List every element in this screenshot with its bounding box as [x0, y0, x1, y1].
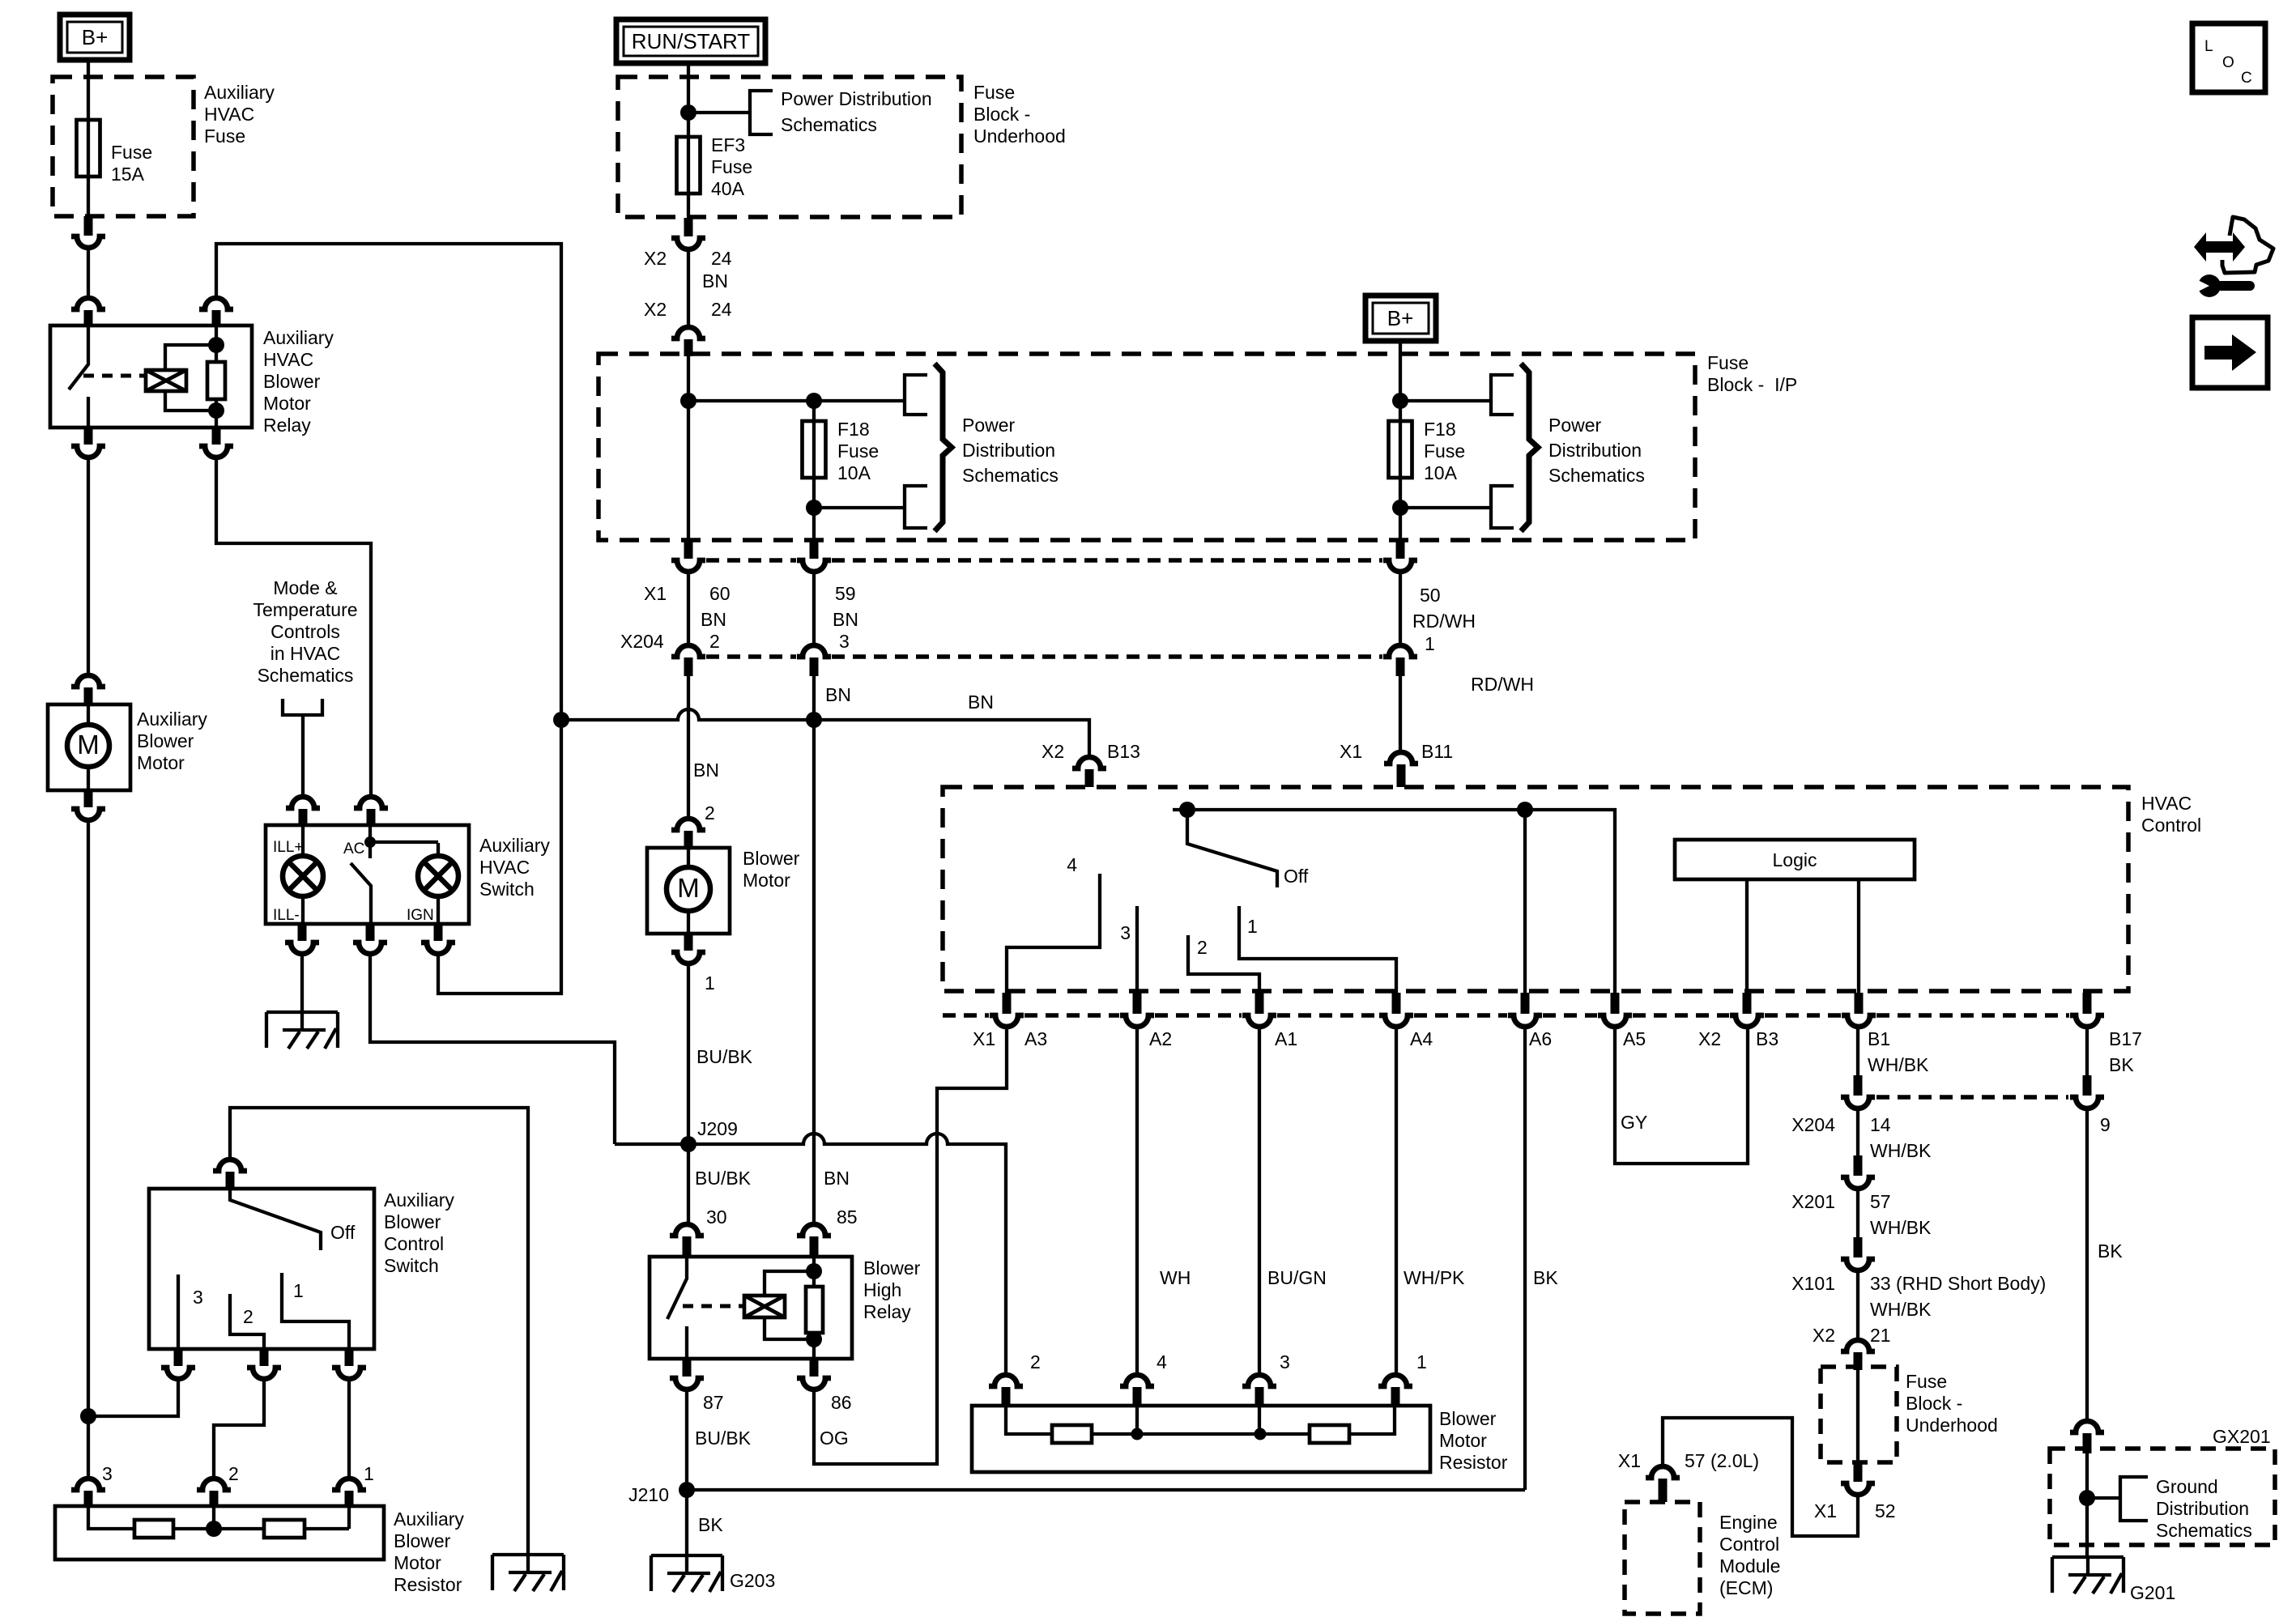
svg-text:BN: BN	[824, 1168, 850, 1189]
svg-text:1: 1	[1416, 1351, 1427, 1372]
connector at Auxiliary Blower Motor Resistor pin 2	[197, 1463, 239, 1506]
connector X1 pin 59	[797, 540, 831, 572]
svg-text:BK: BK	[2109, 1054, 2134, 1075]
svg-text:30: 30	[706, 1206, 727, 1228]
svg-text:X1: X1	[1814, 1500, 1837, 1521]
HVAC internal feed line	[1173, 810, 1615, 993]
svg-text:A6: A6	[1529, 1028, 1552, 1049]
connector X2 pin 21	[1841, 1340, 1875, 1370]
wire BU/GN A1 to resistor pin 3	[1259, 1027, 1327, 1373]
wire X201-57 to X101-33	[1856, 1189, 1859, 1237]
HVAC switch position 4	[1007, 854, 1100, 993]
svg-text:WH/BK: WH/BK	[1870, 1140, 1932, 1161]
resistor box: Blower Motor Resistor	[972, 1406, 1430, 1472]
svg-text:WH/BK: WH/BK	[1870, 1217, 1932, 1238]
relay K2 coil axis wire	[812, 1257, 816, 1359]
connector at Auxiliary Blower Motor pin	[71, 675, 105, 705]
connector X1 pin B11	[1340, 741, 1453, 787]
ground for Auxiliary Blower Control Switch	[492, 1555, 564, 1591]
label Power Distribution Schematics (F18 right)	[1548, 415, 1645, 486]
connector labels X2 24 BN X2 24	[644, 248, 732, 320]
connector below Auxiliary Blower Motor	[71, 790, 105, 820]
svg-text:Blower: Blower	[263, 371, 321, 392]
svg-text:Logic: Logic	[1773, 849, 1817, 870]
svg-text:24: 24	[711, 299, 732, 320]
svg-text:HVAC: HVAC	[263, 349, 313, 370]
svg-text:ILL+: ILL+	[273, 839, 304, 856]
relay K2 parallel resistor	[806, 1287, 823, 1333]
svg-text:B+: B+	[1387, 306, 1414, 330]
svg-text:Mode &: Mode &	[273, 577, 337, 598]
wire Mode & Temperature to ILL+ terminal	[301, 715, 305, 795]
svg-text:X2: X2	[1042, 741, 1064, 762]
wire between underhood and I/P fuse blocks	[687, 249, 690, 326]
svg-text:2: 2	[1030, 1351, 1041, 1372]
reference box LOC	[2192, 23, 2265, 92]
connector X204 pin 14	[1791, 1075, 1932, 1161]
label Fuse Block - I/P	[1707, 352, 1797, 395]
svg-text:Block -: Block -	[973, 104, 1030, 125]
svg-text:BN: BN	[693, 760, 719, 781]
svg-text:B17: B17	[2109, 1028, 2142, 1049]
wire BN to Blower Motor (through rail hop)	[688, 676, 719, 823]
svg-text:HVAC: HVAC	[204, 104, 254, 125]
svg-text:Blower: Blower	[743, 848, 800, 869]
svg-text:Fuse: Fuse	[711, 156, 752, 177]
svg-text:Schematics: Schematics	[1548, 465, 1645, 486]
label Auxiliary Blower Motor	[137, 709, 207, 773]
svg-text:Distribution: Distribution	[1548, 440, 1642, 461]
svg-text:J210: J210	[628, 1484, 669, 1505]
wire Logic to B3	[1745, 879, 1749, 993]
label Engine Control Module (ECM)	[1719, 1512, 1780, 1598]
control switch position 1 contact	[282, 1273, 349, 1349]
wires between X1 and X204 rows	[688, 572, 1400, 644]
ground below Auxiliary HVAC Switch	[266, 1012, 338, 1049]
wire from B+ to Auxiliary HVAC Fuse	[87, 60, 90, 77]
relay K2 actuation dashed link	[683, 1304, 744, 1308]
connector at control switch pin 2	[247, 1349, 281, 1379]
svg-text:Power: Power	[1548, 415, 1602, 436]
svg-text:3: 3	[1280, 1351, 1290, 1372]
pin label IGN	[407, 907, 434, 924]
connector at Auxiliary HVAC Switch output pin	[353, 924, 387, 954]
connector at control switch pin 1	[332, 1349, 366, 1379]
connector line X1 (small dashes)	[706, 558, 1382, 563]
aux resistor element 2	[264, 1520, 305, 1538]
splice box GX201 (dashed)	[2050, 1426, 2275, 1545]
svg-text:Resistor: Resistor	[394, 1574, 462, 1595]
svg-text:Fuse: Fuse	[1906, 1371, 1947, 1392]
fuse F18 10A (right)	[1389, 419, 1466, 483]
power node B+ (I/P feed)	[1365, 296, 1436, 341]
svg-text:BK: BK	[698, 1514, 723, 1535]
blower resistor element 2	[1310, 1425, 1349, 1443]
svg-text:Fuse: Fuse	[111, 142, 152, 163]
fuse EF3 40A	[677, 134, 753, 199]
connector at Blower Motor Resistor pin 2	[989, 1351, 1041, 1406]
wire through Auxiliary HVAC Fuse box	[87, 77, 90, 216]
wire relay K1 to Auxiliary Blower Motor	[87, 457, 90, 674]
in-line connector below Fuse Block Underhood	[671, 218, 705, 249]
HVAC switch position 3	[1120, 906, 1137, 993]
reference bracket (Mode & Temperature Controls)	[283, 699, 322, 715]
svg-text:1: 1	[293, 1280, 304, 1301]
svg-text:87: 87	[703, 1392, 724, 1413]
wire X101-33 to X2-21	[1813, 1270, 1891, 1346]
wire RD/WH X204-1 to HVAC B11	[1400, 674, 1534, 751]
svg-text:X204: X204	[1791, 1114, 1835, 1135]
connector at relay coil supply pin	[199, 298, 233, 327]
splice J210	[628, 1482, 1525, 1535]
svg-text:X204: X204	[620, 631, 664, 652]
svg-text:10A: 10A	[837, 462, 871, 483]
svg-text:Schematics: Schematics	[258, 665, 354, 686]
connector line X204 (small dashes)	[706, 654, 1382, 659]
svg-text:Control: Control	[384, 1233, 444, 1254]
connector X204 pin 2	[671, 645, 705, 676]
relay K1 parallel resistor	[207, 362, 225, 399]
svg-text:BN: BN	[702, 270, 728, 291]
svg-text:Auxiliary: Auxiliary	[394, 1508, 464, 1530]
wire BK B17 to X204-9	[2085, 1027, 2089, 1075]
svg-text:85: 85	[837, 1206, 858, 1228]
svg-text:X2: X2	[644, 299, 667, 320]
motor M: Auxiliary Blower Motor	[48, 704, 130, 790]
junction dots in relay K1	[208, 337, 224, 419]
wire WH/PK A4 to resistor pin 1	[1396, 1027, 1465, 1373]
fuse 15A	[77, 120, 153, 185]
fuse F18 10A (left)	[803, 419, 880, 483]
label Blower Motor Resistor	[1439, 1408, 1508, 1473]
HVAC blower switch wiper	[1187, 810, 1309, 887]
connector HVAC pin A6	[1508, 993, 1542, 1027]
connector line X204 right (small dashes)	[1876, 1095, 2068, 1100]
svg-text:BN: BN	[825, 684, 851, 705]
blower resistor junction dots	[1131, 1428, 1267, 1440]
connector at Auxiliary Blower Control Switch common pin	[213, 1160, 247, 1189]
connector ECM X1 pin 57	[1618, 1450, 1759, 1502]
wire WH/BK B1 to X204	[1856, 1027, 1859, 1075]
wire fuse to relay contact	[87, 248, 90, 296]
svg-text:Blower: Blower	[863, 1257, 921, 1279]
ground G201	[2052, 1557, 2175, 1603]
svg-text:X201: X201	[1791, 1191, 1835, 1212]
motor M: Blower Motor	[647, 848, 730, 934]
label Blower Motor	[743, 848, 800, 891]
svg-text:BK: BK	[1533, 1267, 1558, 1288]
svg-text:Fuse: Fuse	[1424, 440, 1465, 462]
svg-text:60: 60	[709, 583, 731, 604]
connector at relay pin 87	[670, 1359, 724, 1413]
svg-text:15A: 15A	[111, 164, 145, 185]
svg-text:Off: Off	[330, 1222, 356, 1243]
pin label AC	[343, 840, 364, 857]
connector at control switch pin 3	[161, 1349, 195, 1379]
wire B+ branch to relay coil and BN rail	[216, 244, 561, 720]
wire Auxiliary Blower Motor to resistor pin 3	[87, 820, 90, 1477]
relay K2 coil	[744, 1271, 814, 1339]
splice J209	[615, 1118, 1006, 1373]
icon forward arrow box	[2192, 317, 2268, 388]
connector HVAC pin A2	[1120, 993, 1154, 1027]
wire control switch pin 3 to resistor feed	[88, 1379, 178, 1416]
logic block	[1675, 840, 1915, 879]
resistor box: Auxiliary Blower Motor Resistor	[55, 1506, 384, 1560]
svg-text:59: 59	[835, 583, 856, 604]
svg-text:Auxiliary: Auxiliary	[204, 82, 275, 103]
junction dot at EF3 feed	[680, 104, 696, 121]
wire I/P feed bus (left)	[688, 355, 905, 540]
svg-text:Motor: Motor	[1439, 1430, 1487, 1451]
svg-text:Motor: Motor	[137, 752, 185, 773]
svg-text:Switch: Switch	[479, 879, 535, 900]
connector HVAC pin A4	[1379, 993, 1413, 1027]
control switch position 3 contact	[178, 1274, 203, 1349]
labels X204 2 3 1	[620, 631, 1435, 654]
svg-text:OG: OG	[820, 1428, 849, 1449]
connector HVAC pin A5	[1598, 993, 1632, 1027]
svg-text:Fuse: Fuse	[1707, 352, 1749, 373]
blower resistor internal bus	[1006, 1406, 1395, 1434]
wire Auxiliary Blower Control Switch common to ground	[230, 1108, 528, 1555]
AC indicator lamp	[418, 843, 458, 924]
wire through underhood block to X1-52	[1856, 1368, 1859, 1462]
svg-text:RD/WH: RD/WH	[1471, 674, 1534, 695]
connector X101 pin 33	[1791, 1237, 2046, 1320]
svg-text:3: 3	[839, 631, 850, 652]
HVAC switch position 1	[1239, 906, 1396, 993]
connector at Blower Motor pin 1	[671, 934, 715, 994]
relay K1 switch contact	[69, 326, 88, 428]
connector at relay pin 1 (contact feed)	[71, 298, 105, 327]
svg-text:1: 1	[1425, 633, 1435, 654]
svg-text:3: 3	[193, 1287, 203, 1308]
svg-text:52: 52	[1875, 1500, 1896, 1521]
aux resistor element 1	[134, 1520, 173, 1538]
reference brackets Power Distribution (F18 right)	[1491, 375, 1514, 528]
connector HVAC pin B3	[1730, 993, 1764, 1027]
connector at Blower Motor Resistor pin 3	[1242, 1351, 1290, 1406]
connector at relay K1 coil ground-side pin	[199, 428, 233, 457]
svg-text:2: 2	[243, 1306, 253, 1327]
in-line connector at Fuse Block I/P input	[671, 327, 705, 356]
svg-text:1: 1	[705, 972, 715, 994]
svg-text:Auxiliary: Auxiliary	[263, 327, 334, 348]
label Off (control switch)	[330, 1222, 356, 1243]
svg-text:IGN: IGN	[407, 907, 434, 924]
svg-text:2: 2	[1197, 937, 1208, 958]
wire IGN terminal to BN rail	[438, 720, 561, 994]
svg-text:40A: 40A	[711, 178, 745, 199]
svg-text:C: C	[2241, 70, 2252, 87]
connector at Auxiliary Blower Motor Resistor pin 3	[71, 1463, 113, 1506]
label Fuse Block - Underhood	[973, 82, 1066, 147]
relay K1 actuation dashed link	[83, 374, 146, 378]
svg-text:Schematics: Schematics	[962, 465, 1059, 486]
relay K2 switch contact	[667, 1257, 687, 1359]
svg-text:Fuse: Fuse	[204, 126, 245, 147]
svg-text:50: 50	[1420, 585, 1441, 606]
label Auxiliary Blower Motor Resistor	[394, 1508, 464, 1595]
svg-text:Blower: Blower	[137, 730, 194, 751]
power node RUN/START	[616, 19, 765, 63]
fuse block: Fuse Block - Underhood (pass-through, dashed)	[1821, 1367, 1897, 1462]
svg-text:B3: B3	[1756, 1028, 1778, 1049]
pin label ILL+	[273, 839, 304, 856]
svg-text:F18: F18	[837, 419, 870, 440]
svg-text:57 (2.0L): 57 (2.0L)	[1685, 1450, 1759, 1471]
in-line connector below Auxiliary HVAC Fuse	[71, 216, 105, 248]
connector at Auxiliary HVAC Switch ILL+ pin	[286, 797, 320, 827]
svg-text:A3: A3	[1024, 1028, 1047, 1049]
control switch position 2 contact	[230, 1294, 264, 1349]
fuse block: Fuse Block - Underhood (dashed box)	[618, 77, 961, 217]
svg-text:RUN/START: RUN/START	[632, 29, 750, 53]
wire F18 left lower branch	[814, 506, 905, 509]
wire BU/BK relay 87 to J210	[687, 1389, 752, 1555]
svg-text:High: High	[863, 1279, 901, 1300]
svg-text:BU/BK: BU/BK	[695, 1428, 752, 1449]
svg-text:J209: J209	[697, 1118, 738, 1139]
relay K1 coil	[146, 345, 216, 411]
switch box: Auxiliary HVAC Switch	[266, 825, 469, 924]
svg-text:Fuse: Fuse	[837, 440, 879, 462]
junction dot on motor wire at resistor feed	[80, 1408, 96, 1424]
label Ground Distribution Schematics	[2156, 1476, 2252, 1541]
svg-text:BN: BN	[833, 609, 858, 630]
svg-text:B+: B+	[82, 25, 109, 49]
wire control switch pin 1 to resistor tap 1	[347, 1379, 351, 1477]
wire X204-14 to X201-57	[1856, 1108, 1859, 1155]
wire RUN/START through fuse EF3	[688, 63, 750, 216]
svg-text:X1: X1	[973, 1028, 995, 1049]
connector at Blower Motor Resistor pin 1	[1378, 1351, 1427, 1406]
svg-text:O: O	[2222, 54, 2234, 71]
fuse block: Fuse Block - I/P (dashed box)	[598, 354, 1695, 540]
svg-text:Motor: Motor	[263, 393, 311, 414]
svg-text:Engine: Engine	[1719, 1512, 1778, 1533]
module box: Engine Control Module (dashed)	[1625, 1502, 1700, 1614]
svg-text:Temperature: Temperature	[253, 599, 357, 620]
wire control switch pin 2 to resistor tap 2	[214, 1379, 264, 1477]
svg-text:A2: A2	[1149, 1028, 1172, 1049]
svg-text:GY: GY	[1621, 1112, 1647, 1133]
svg-text:B1: B1	[1868, 1028, 1890, 1049]
svg-text:Fuse: Fuse	[973, 82, 1015, 103]
connector at relay pin 30	[670, 1224, 704, 1257]
reference brace (F18 left)	[935, 364, 952, 531]
svg-text:Off: Off	[1284, 866, 1309, 887]
svg-text:33 (RHD Short Body): 33 (RHD Short Body)	[1870, 1273, 2046, 1294]
svg-text:2: 2	[228, 1463, 239, 1484]
relay K1 box (Auxiliary HVAC Blower Motor Relay)	[50, 326, 252, 428]
svg-text:AC: AC	[343, 840, 364, 857]
junction dot BN rail at X204-3 wire	[806, 712, 822, 728]
svg-text:X1: X1	[644, 583, 667, 604]
svg-text:X2: X2	[1813, 1325, 1835, 1346]
svg-text:BN: BN	[968, 691, 994, 713]
wire BN X204-3 down to rail	[814, 676, 851, 720]
power node B+ (battery feed, left)	[60, 15, 130, 60]
svg-text:9: 9	[2100, 1114, 2111, 1135]
svg-text:(ECM): (ECM)	[1719, 1577, 1773, 1598]
wire BK X204-9 to GX201	[2087, 1108, 2123, 1419]
svg-text:Control: Control	[1719, 1534, 1779, 1555]
wire Logic to B1	[1857, 879, 1860, 993]
pin label ILL-	[273, 907, 300, 924]
svg-text:4: 4	[1067, 854, 1077, 875]
svg-text:WH/BK: WH/BK	[1870, 1299, 1932, 1320]
svg-text:M: M	[677, 873, 700, 903]
illumination lamp ILL	[283, 825, 323, 924]
svg-text:Module: Module	[1719, 1555, 1780, 1577]
wire Auxiliary HVAC Switch output to J209	[370, 954, 615, 1144]
connector at Auxiliary Blower Motor Resistor pin 1	[332, 1463, 374, 1506]
connector at relay pin 85	[797, 1224, 831, 1257]
svg-text:X1: X1	[1618, 1450, 1641, 1471]
aux resistor junction dot	[206, 1521, 222, 1537]
svg-text:G203: G203	[730, 1570, 775, 1591]
connector X1 pin 52	[1814, 1462, 1896, 1521]
connector line X1/X2 below HVAC (small dashes)	[943, 1013, 2069, 1018]
svg-text:B13: B13	[1107, 741, 1140, 762]
svg-text:Motor: Motor	[394, 1552, 441, 1573]
connector at relay pin 86	[797, 1359, 852, 1413]
wire relay K1 coil pin to Auxiliary HVAC Switch AC terminal	[216, 457, 371, 795]
label Blower High Relay	[863, 1257, 921, 1322]
svg-text:24: 24	[711, 248, 732, 269]
wire ILL- to ground	[300, 954, 304, 1012]
svg-text:21: 21	[1870, 1325, 1891, 1346]
svg-text:WH/BK: WH/BK	[1868, 1054, 1929, 1075]
connector HVAC pin B1	[1842, 993, 1876, 1027]
svg-text:HVAC: HVAC	[479, 857, 530, 878]
label Auxiliary HVAC Blower Motor Relay	[263, 327, 334, 436]
reference brace (F18 right)	[1521, 364, 1538, 531]
icon vehicle navigation (double arrow, car outline, wrench)	[2192, 217, 2273, 297]
svg-text:10A: 10A	[1424, 462, 1458, 483]
label Auxiliary HVAC Fuse	[204, 82, 275, 147]
svg-text:Block - I/P: Block - I/P	[1707, 374, 1797, 395]
svg-text:WH/PK: WH/PK	[1404, 1267, 1465, 1288]
connector at Blower Motor pin 2	[671, 819, 705, 849]
wire BN rail (hops over blower motor wire)	[561, 691, 1089, 755]
svg-text:X101: X101	[1791, 1273, 1835, 1294]
junction dots I/P left	[680, 393, 822, 516]
label Mode & Temperature Controls in HVAC Schematics	[253, 577, 357, 686]
wire GY A5 to B3	[1615, 1027, 1748, 1164]
svg-text:BN: BN	[701, 609, 726, 630]
connector X204 pin 9	[2070, 1075, 2111, 1135]
wire BK A6 to J210	[1525, 1027, 1558, 1490]
wire through GX201 to G201	[2079, 1453, 2120, 1557]
module box: HVAC Control (dashed)	[943, 787, 2128, 991]
svg-text:3: 3	[102, 1463, 113, 1484]
svg-text:Block -: Block -	[1906, 1393, 1962, 1414]
connector X204 pin 3	[797, 645, 831, 676]
svg-text:RD/WH: RD/WH	[1412, 611, 1476, 632]
svg-text:Ground: Ground	[2156, 1476, 2218, 1497]
svg-text:Blower: Blower	[394, 1530, 451, 1551]
svg-text:G201: G201	[2130, 1582, 2175, 1603]
labels HVAC connector pins	[973, 1028, 2142, 1075]
svg-text:Blower: Blower	[1439, 1408, 1497, 1429]
svg-text:Resistor: Resistor	[1439, 1452, 1508, 1473]
connector HVAC pin B17	[2070, 993, 2104, 1027]
svg-text:1: 1	[364, 1463, 374, 1484]
wire OG relay 86 to HVAC A3	[814, 1028, 1007, 1464]
